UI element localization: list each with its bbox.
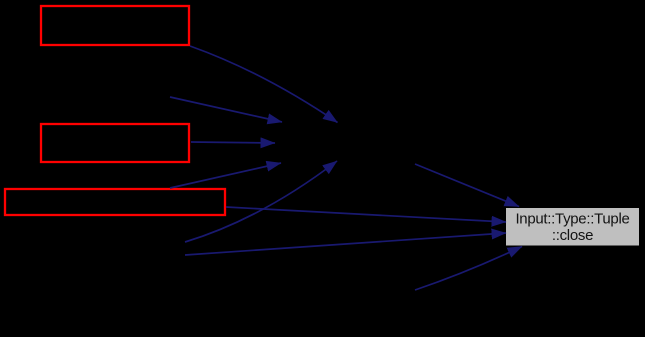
edge E4: R3 top -> middle node A (170, 163, 281, 188)
svg-text:::close: ::close (552, 227, 593, 244)
edge E7: hidden node -> Tuple::close (185, 233, 506, 255)
node Input::Type::Tuple::close (gray) (506, 208, 639, 246)
edge E3: R2 -> middle node A (horizontal) (191, 142, 275, 143)
caller node box R2 (red, label hidden) (41, 124, 189, 162)
caller node box R3 (red, one-line, label hidden) (5, 189, 225, 215)
svg-text:Input::Type::Tuple: Input::Type::Tuple (515, 211, 629, 228)
edge E2: hidden node -> middle node A (170, 97, 282, 122)
edge E5: hidden node -> middle node B (curved) (185, 161, 337, 242)
edge E6: R3 right -> Tuple::close (226, 207, 506, 222)
edge E8: middle node B -> Tuple::close (top corner) (415, 164, 519, 207)
edge E1: R1 -> middle node B (curved) (190, 46, 338, 123)
caller node box R1 (red, label hidden) (41, 6, 189, 45)
edge E9: hidden node -> Tuple::close (bottom corner, curved) (415, 247, 522, 291)
